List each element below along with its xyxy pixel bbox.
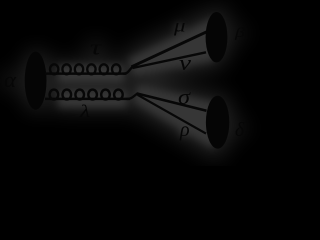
artwork — [25, 12, 230, 149]
svg-text:τ: τ — [90, 35, 103, 60]
gluon tau baseline — [45, 72, 127, 75]
svg-text:ν: ν — [179, 50, 191, 75]
svg-text:ρ: ρ — [179, 119, 190, 141]
blob alpha — [25, 52, 47, 110]
svg-text:μ: μ — [173, 16, 186, 36]
gluon lambda baseline — [45, 98, 130, 101]
svg-text:σ: σ — [178, 84, 191, 109]
gluon tau loops — [50, 64, 120, 74]
gluon lambda end curl — [127, 94, 138, 99]
glow backdrop — [1, 9, 247, 151]
svg-text:β: β — [234, 26, 245, 41]
line mu — [132, 31, 209, 67]
line sigma — [137, 93, 207, 110]
line nu — [133, 52, 207, 68]
svg-text:δ: δ — [235, 119, 245, 141]
gluon tau end curl — [124, 67, 133, 74]
svg-text:λ: λ — [79, 101, 91, 121]
svg-text:α: α — [4, 67, 16, 92]
blob beta — [206, 12, 228, 62]
gluon lambda loops — [50, 90, 123, 100]
line rho — [138, 95, 207, 134]
blob delta — [206, 96, 229, 149]
